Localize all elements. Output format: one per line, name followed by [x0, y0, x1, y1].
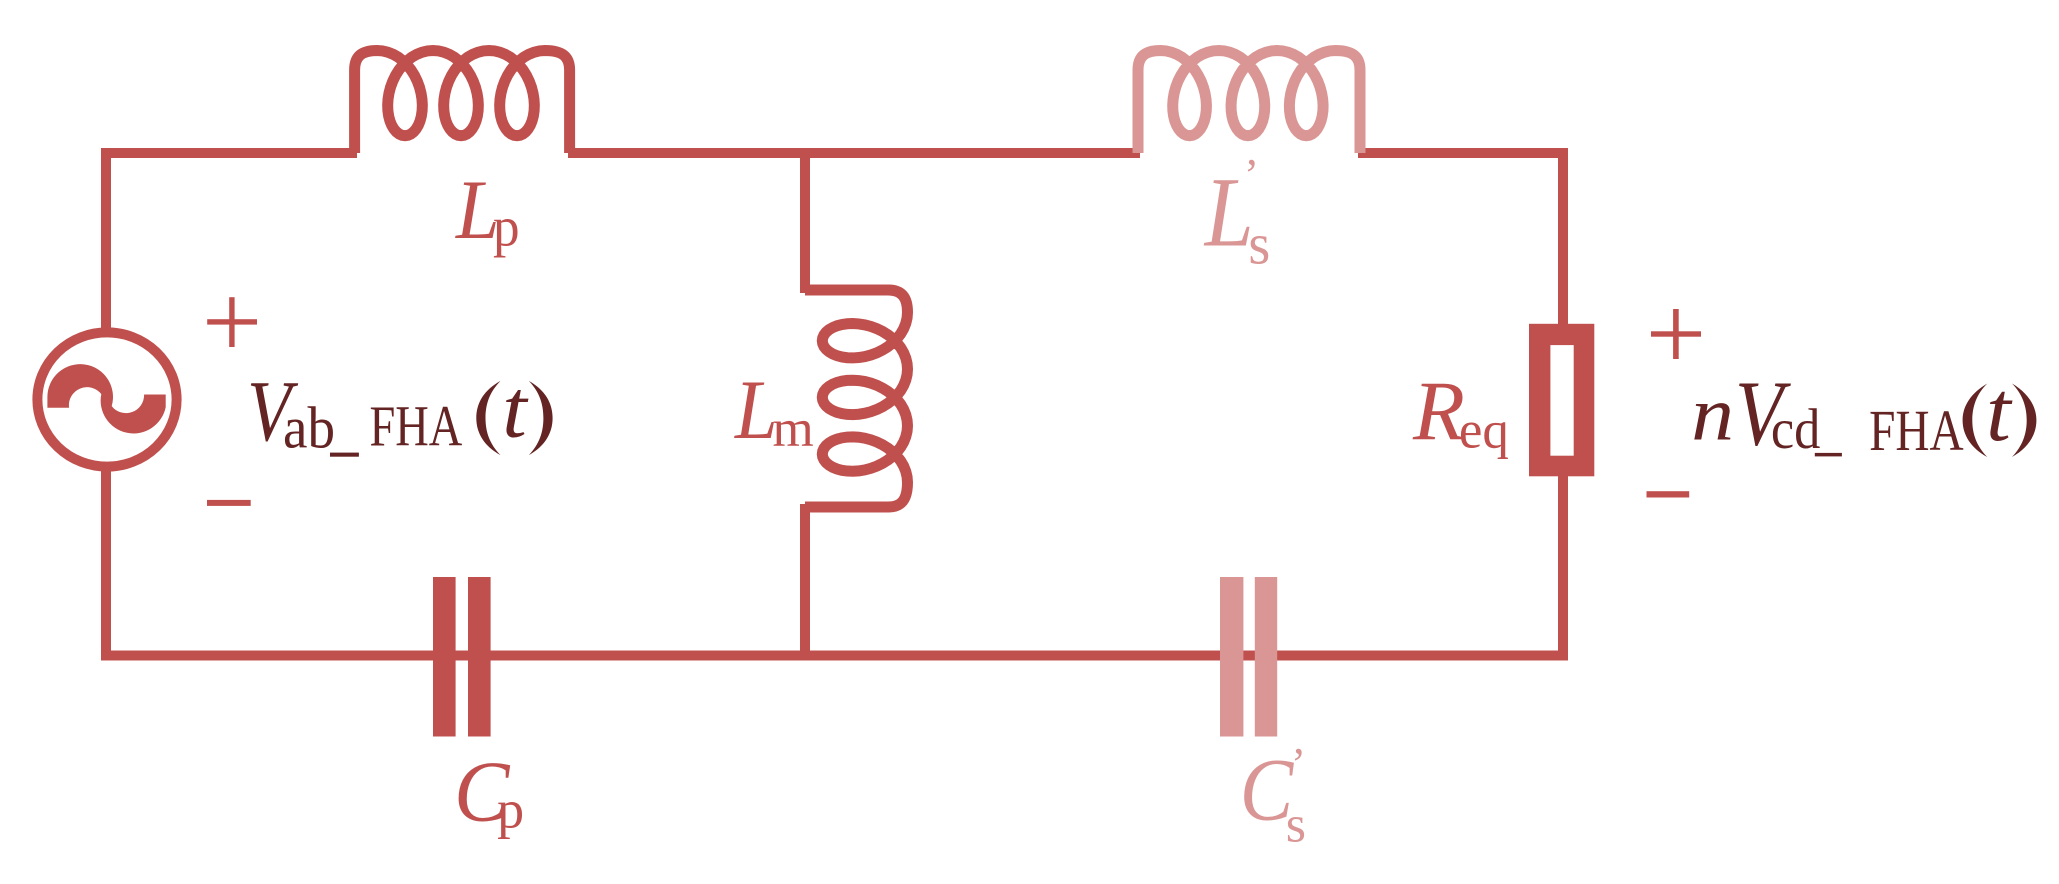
wire top middle (Lp to Ls): [568, 148, 1140, 158]
label Cp: [454, 744, 524, 840]
svg-text:p: p: [497, 780, 524, 840]
inductor Lp (series primary): [355, 51, 570, 154]
wire left vertical lower: [101, 467, 111, 661]
svg-text:s: s: [1248, 213, 1270, 277]
minus sign (output): [1647, 491, 1690, 497]
capacitor C&#39;s left plate: [1220, 577, 1243, 737]
label Ls prime: [1203, 150, 1270, 277]
svg-text:eq: eq: [1459, 401, 1509, 459]
resistor Req body: [1529, 324, 1594, 477]
wire bottom rail: [101, 651, 1568, 661]
svg-text:R: R: [1412, 364, 1465, 458]
inductor Lm (magnetizing): [805, 290, 908, 507]
wire Lm vertical upper: [800, 153, 810, 293]
svg-text:’: ’: [1244, 150, 1259, 200]
svg-text:FHA: FHA: [1869, 399, 1964, 463]
capacitor C&#39;s right plate: [1255, 577, 1277, 737]
svg-text:p: p: [493, 195, 520, 258]
plus sign (output): [1651, 309, 1701, 359]
wire top right: [1358, 148, 1568, 158]
AC source sine symbol: [47, 364, 165, 433]
svg-text:m: m: [773, 400, 814, 458]
wire top-left horizontal: [101, 148, 357, 158]
label Cs prime: [1240, 739, 1306, 854]
svg-text:t: t: [1986, 363, 2012, 459]
wire right vertical upper: [1558, 148, 1568, 325]
svg-text:FHA: FHA: [370, 395, 463, 459]
capacitor Cp left plate: [433, 577, 456, 737]
svg-text:s: s: [1286, 797, 1306, 854]
label Lp: [455, 162, 520, 258]
capacitor Cp right plate: [468, 577, 491, 737]
inductor L&#39;s (series secondary, reflected): [1138, 51, 1360, 154]
AC source circle V1: [37, 332, 176, 466]
label Lm: [734, 363, 814, 458]
plus sign (input): [207, 297, 257, 347]
svg-text:cd: cd: [1771, 397, 1820, 460]
svg-text:’: ’: [1291, 739, 1306, 789]
label nVcd_FHA(t): [1691, 362, 2036, 465]
svg-text:L: L: [734, 363, 778, 457]
svg-text:t: t: [502, 364, 529, 455]
wire left vertical upper: [101, 148, 111, 332]
label Vab_FHA(t): [247, 364, 552, 461]
wire right vertical lower: [1558, 474, 1568, 661]
minus sign (input): [207, 500, 251, 506]
svg-text:n: n: [1691, 371, 1734, 456]
svg-text:ab: ab: [283, 396, 335, 461]
wire Lm vertical lower: [800, 504, 810, 656]
label Req: [1412, 364, 1509, 459]
resistor Req inner white: [1550, 345, 1573, 456]
